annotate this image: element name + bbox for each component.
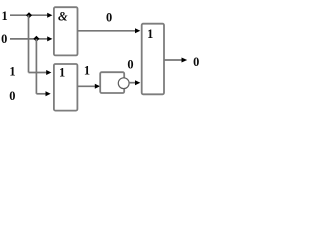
inverter U4 bubble	[118, 78, 129, 89]
svg-text:1: 1	[84, 64, 90, 78]
inverter U4 box	[100, 72, 124, 93]
wire inverter output to right OR gate	[129, 82, 136, 84]
wire OR output to inverter	[78, 85, 96, 87]
arrowhead into inverter input	[95, 84, 100, 89]
junction dot node B	[33, 36, 39, 42]
svg-text:1: 1	[147, 27, 153, 41]
OR gate U3 box (output stage)	[142, 24, 164, 95]
arrowhead into AND input 1	[47, 13, 52, 18]
svg-text:1: 1	[59, 66, 65, 80]
arrowhead into OR input 1	[46, 70, 51, 75]
arrowhead into U3 input 2	[135, 80, 140, 85]
svg-text:1: 1	[9, 65, 15, 79]
wire input1 to AND gate	[10, 14, 48, 16]
OR gate U2 box	[54, 64, 78, 111]
AND gate U1 box	[54, 7, 78, 55]
wire node B down	[35, 39, 37, 94]
wire U3 output	[164, 59, 182, 61]
wire AND output to right OR gate	[78, 30, 136, 32]
svg-text:&: &	[58, 10, 68, 24]
svg-text:0: 0	[1, 32, 7, 46]
wire node A down	[28, 15, 30, 72]
svg-text:0: 0	[127, 58, 133, 72]
svg-text:0: 0	[193, 55, 199, 69]
arrowhead into OR input 2	[46, 91, 51, 96]
arrowhead circuit output	[182, 58, 188, 63]
svg-text:1: 1	[1, 9, 7, 23]
junction dot node A	[26, 12, 32, 18]
arrowhead into U3 input 1	[135, 28, 140, 33]
wire node B to OR input 2	[36, 93, 46, 95]
svg-text:0: 0	[9, 89, 15, 103]
wire input2 to AND gate	[10, 38, 48, 40]
wire node A to OR input 1	[29, 72, 47, 74]
arrowhead into AND input 2	[47, 36, 52, 41]
svg-text:0: 0	[106, 10, 112, 24]
